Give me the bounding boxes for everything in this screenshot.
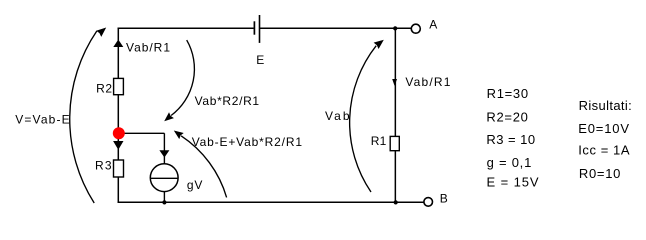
svg-text:gV: gV [187,178,203,192]
svg-text:Vab*R2/R1: Vab*R2/R1 [195,94,260,108]
svg-text:Risultati:: Risultati: [579,98,632,113]
svg-text:R1=30: R1=30 [487,86,528,101]
svg-text:Vab/R1: Vab/R1 [126,41,170,55]
svg-text:Vab/R1: Vab/R1 [405,75,450,89]
svg-text:Vab-E+Vab*R2/R1: Vab-E+Vab*R2/R1 [192,135,303,149]
svg-text:E0=10V: E0=10V [578,121,629,136]
svg-text:Icc = 1A: Icc = 1A [578,143,630,158]
svg-text:E = 15V: E = 15V [487,175,539,190]
svg-text:B: B [440,191,448,205]
svg-text:Vab: Vab [325,109,350,123]
svg-text:R3: R3 [95,158,112,172]
svg-text:g = 0,1: g = 0,1 [487,155,532,170]
svg-text:A: A [429,18,437,32]
svg-text:E: E [256,53,264,67]
svg-text:R0=10: R0=10 [579,166,621,181]
svg-text:R3 = 10: R3 = 10 [486,132,535,147]
svg-text:R2: R2 [96,82,112,96]
svg-text:R2=20: R2=20 [486,109,528,124]
svg-text:R1: R1 [371,134,387,148]
svg-text:V=Vab-E: V=Vab-E [15,113,69,127]
